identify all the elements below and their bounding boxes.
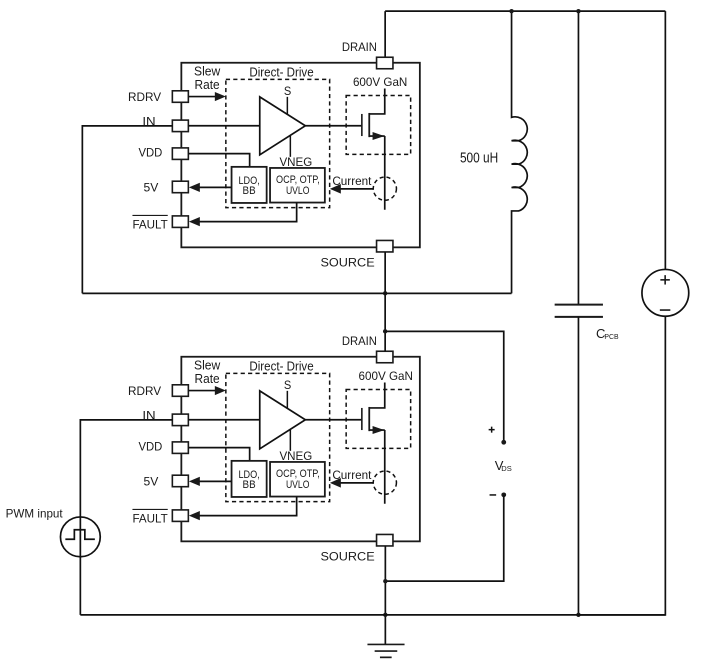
U2 source wire down to ground: [384, 546, 386, 644]
svg-text:BB: BB: [243, 479, 256, 491]
U2 internal source wire through current sense: [384, 430, 386, 504]
U2 GaN FET channel bar: [368, 407, 370, 431]
node: VDS+ branch junction: [383, 329, 387, 333]
U2 pin RDRV: [172, 385, 188, 397]
DC voltage source V1 bottom wire: [578, 316, 665, 615]
U2 VNEG label and stub: [289, 430, 291, 451]
svg-text:500 uH: 500 uH: [460, 151, 498, 167]
svg-text:Rate: Rate: [195, 77, 220, 92]
inductor L 500 uH: [512, 11, 528, 293]
VDS + label: [489, 429, 495, 431]
svg-text:Rate: Rate: [195, 371, 220, 386]
U1 GaN FET drain stub: [369, 88, 385, 114]
U1 Direct-Drive dashed block: [226, 79, 330, 207]
svg-text:VNEG: VNEG: [279, 155, 312, 169]
svg-text:600V GaN: 600V GaN: [359, 369, 413, 383]
svg-text:600V GaN: 600V GaN: [353, 75, 407, 89]
svg-text:SOURCE: SOURCE: [320, 549, 374, 563]
wire top rail to U1 DRAIN: [384, 11, 386, 57]
svg-text:RDRV: RDRV: [128, 384, 161, 398]
U1 pin IN: [172, 120, 188, 132]
U1 pin SOURCE: [377, 240, 393, 252]
U2 OCP OTP UVLO block: [270, 462, 325, 497]
node: inductor / top rail junction: [509, 9, 513, 13]
U2 GaN FET gate bar: [361, 408, 363, 430]
U2 GaN FET source stub with arrow: [369, 429, 385, 431]
node: switch node / inductor return junction: [383, 291, 387, 295]
U1 GaN FET source stub with arrow: [369, 135, 385, 137]
V1 plus sign: [660, 279, 670, 281]
U2 pin DRAIN: [377, 351, 393, 363]
U1 internal source wire through current sense: [384, 136, 386, 210]
VDS sense - wire: [385, 495, 503, 581]
U2 VDD wire to LDO: [188, 448, 249, 461]
node: capacitor / bottom rail junction: [576, 613, 580, 617]
U1 driver output wire to GaN gate: [305, 125, 362, 127]
wire from U1 IN down to switch node: [82, 126, 172, 294]
svg-text:5V: 5V: [144, 475, 159, 489]
svg-text:S: S: [284, 378, 291, 392]
svg-text:RDRV: RDRV: [128, 90, 161, 104]
U1 GaN FET gate bar: [361, 114, 363, 136]
svg-text:Direct- Drive: Direct- Drive: [249, 359, 313, 374]
U1 VNEG label and stub: [289, 136, 291, 157]
PWM pulse symbol: [65, 530, 95, 540]
svg-text:FAULT: FAULT: [132, 512, 168, 526]
svg-text:UVLO: UVLO: [286, 185, 310, 197]
U1 FAULT wire from OCP block with arrow: [199, 203, 296, 222]
U1 pin DRAIN: [377, 57, 393, 69]
svg-text:FAULT: FAULT: [132, 218, 168, 232]
VDS + probe dot: [501, 440, 506, 445]
VDS - label: [490, 494, 497, 496]
svg-text:5V: 5V: [144, 181, 159, 195]
ground symbol: [367, 643, 404, 645]
DC voltage source V1 circle: [642, 269, 689, 316]
U2 600V GaN dashed block: [346, 389, 411, 448]
U2 LDO, BB block: [232, 461, 267, 497]
U2 pin SOURCE: [377, 534, 393, 546]
U2 pin 5V: [172, 475, 188, 487]
U2 pin FAULT: [172, 510, 188, 521]
U1 current sense dashed circle: [373, 177, 396, 200]
capacitor CPCB plates: [555, 304, 603, 306]
svg-text:DRAIN: DRAIN: [342, 40, 377, 54]
U2 driver output wire to GaN gate: [305, 419, 362, 421]
svg-text:PWM input: PWM input: [6, 507, 64, 521]
U2 current sense dashed circle: [373, 471, 396, 494]
U2 GaN FET drain stub: [369, 382, 385, 408]
capacitor CPCB top wire: [577, 11, 579, 305]
svg-text:VDD: VDD: [138, 146, 162, 160]
bottom return rail wire: [80, 614, 665, 616]
U2 RDRV wire + arrow into Direct-Drive block: [188, 390, 215, 392]
U1 OCP OTP UVLO block: [270, 168, 325, 203]
svg-text:DS: DS: [501, 464, 512, 473]
gate driver U2 body: [181, 357, 420, 542]
svg-text:PCB: PCB: [604, 332, 618, 341]
U1 5V wire from LDO with arrow: [199, 186, 231, 188]
wire U2 IN to PWM source (passes through circle): [80, 420, 172, 615]
switch node wire U1 SOURCE to U2 DRAIN: [384, 252, 386, 351]
U1 VDD wire to LDO: [188, 154, 249, 167]
svg-text:DRAIN: DRAIN: [342, 334, 377, 348]
svg-text:VNEG: VNEG: [279, 449, 312, 463]
U1 pin FAULT: [172, 216, 188, 228]
svg-text:BB: BB: [243, 185, 256, 197]
PWM input source circle: [60, 517, 100, 557]
capacitor CPCB bottom wire: [577, 317, 579, 615]
U1 pin 5V: [172, 181, 188, 193]
gate driver U1 body: [181, 63, 420, 248]
VDS - probe dot: [501, 492, 506, 497]
U1 driver amplifier triangle: [260, 97, 306, 155]
U2 FAULT wire from OCP block with arrow: [199, 497, 296, 516]
U2 driver amplifier triangle: [260, 391, 306, 449]
U2 pin VDD: [172, 442, 188, 454]
V1 minus sign: [660, 309, 671, 311]
wire switch node to inductor bottom: [82, 292, 511, 294]
VDS sense + wire: [385, 331, 504, 442]
svg-text:Direct- Drive: Direct- Drive: [249, 65, 313, 80]
U1 IN signal wire: [188, 125, 259, 127]
svg-text:S: S: [284, 84, 291, 98]
U2 Direct-Drive dashed block: [226, 373, 330, 501]
node: source / bottom rail junction: [383, 613, 387, 617]
top HV bus rail wire: [385, 10, 665, 12]
svg-text:UVLO: UVLO: [286, 479, 310, 491]
U2 IN signal wire: [188, 419, 259, 421]
U1 600V GaN dashed block: [346, 95, 411, 154]
U2 5V wire from LDO with arrow: [199, 480, 231, 482]
svg-text:VDD: VDD: [138, 440, 162, 454]
U1 RDRV wire + arrow into Direct-Drive block: [188, 96, 215, 98]
U2 pin IN: [172, 414, 188, 426]
U1 pin RDRV: [172, 91, 188, 103]
svg-text:SOURCE: SOURCE: [320, 255, 374, 269]
node: capacitor / top rail junction: [576, 9, 580, 13]
U1 GaN FET channel bar: [368, 113, 370, 137]
node: source / VDS- junction: [383, 579, 387, 583]
DC voltage source V1 top wire: [664, 11, 666, 269]
U1 LDO, BB block: [232, 167, 267, 203]
U1 pin VDD: [172, 148, 188, 160]
